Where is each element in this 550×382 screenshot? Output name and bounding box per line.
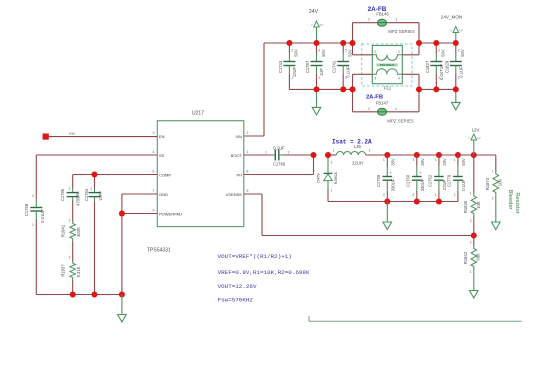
svg-text:R1837: R1837	[61, 264, 66, 277]
svg-text:1: 1	[492, 170, 494, 174]
svg-text:9: 9	[153, 208, 155, 212]
svg-text:1: 1	[247, 150, 249, 154]
svg-text:50V: 50V	[348, 49, 353, 57]
svg-text:VOUT=VREF*((R1/R2)+1): VOUT=VREF*((R1/R2)+1)	[218, 253, 292, 260]
svg-text:1: 1	[395, 107, 397, 111]
svg-text:1: 1	[470, 192, 472, 196]
svg-text:+: +	[419, 171, 422, 176]
svg-text:3: 3	[374, 77, 376, 81]
svg-text:35V: 35V	[391, 158, 396, 166]
svg-text:698: 698	[475, 253, 480, 261]
svg-text:EN: EN	[69, 132, 75, 136]
svg-text:Resistor: Resistor	[514, 192, 520, 213]
svg-text:1: 1	[333, 149, 335, 153]
svg-text:2: 2	[69, 219, 71, 223]
svg-text:4: 4	[153, 150, 155, 154]
svg-text:Isat = 2.2A: Isat = 2.2A	[332, 138, 372, 145]
svg-text:2: 2	[492, 197, 494, 201]
svg-text:1: 1	[396, 18, 398, 22]
svg-text:+: +	[389, 171, 392, 176]
svg-text:C1759: C1759	[376, 174, 381, 187]
svg-text:EN: EN	[159, 134, 165, 139]
svg-text:1UF: 1UF	[319, 68, 324, 76]
svg-text:2: 2	[69, 187, 71, 191]
svg-text:22UH: 22UH	[352, 160, 363, 165]
svg-text:2: 2	[369, 149, 371, 153]
svg-text:8: 8	[247, 169, 249, 173]
svg-text:6: 6	[153, 169, 155, 173]
svg-text:2: 2	[383, 193, 385, 197]
svg-text:C1779: C1779	[447, 174, 452, 187]
svg-text:GND: GND	[159, 192, 168, 197]
svg-text:R1842: R1842	[463, 251, 468, 264]
svg-text:2: 2	[69, 256, 71, 260]
svg-text:2: 2	[435, 193, 437, 197]
svg-text:MPZ SERIES: MPZ SERIES	[387, 118, 414, 123]
svg-text:2: 2	[318, 49, 320, 53]
svg-text:C1741: C1741	[332, 60, 337, 73]
svg-text:330UF: 330UF	[420, 178, 425, 191]
svg-text:TPS54331: TPS54331	[147, 248, 171, 254]
svg-text:1: 1	[345, 76, 347, 80]
svg-text:COMP: COMP	[159, 172, 171, 177]
svg-text:2: 2	[454, 193, 456, 197]
svg-text:2: 2	[90, 187, 92, 191]
svg-text:1: 1	[383, 158, 385, 162]
svg-text:1: 1	[318, 76, 320, 80]
svg-text:2: 2	[291, 49, 293, 53]
svg-text:VSENSE: VSENSE	[226, 192, 243, 197]
svg-text:AP: AP	[459, 29, 463, 33]
svg-text:C1762: C1762	[428, 174, 433, 187]
svg-text:4: 4	[398, 77, 400, 81]
svg-text:2: 2	[331, 161, 333, 165]
svg-text:B360A: B360A	[333, 172, 338, 184]
svg-text:7: 7	[153, 189, 155, 193]
svg-text:U217: U217	[192, 111, 204, 117]
svg-text:2: 2	[438, 49, 440, 53]
svg-text:VREF=0.8V,R1=10K,R2=0.698K: VREF=0.8V,R1=10K,R2=0.698K	[218, 269, 310, 276]
svg-text:5: 5	[247, 189, 249, 193]
svg-text:10K: 10K	[498, 179, 503, 187]
svg-text:12PF: 12PF	[98, 191, 103, 201]
svg-text:24V: 24V	[309, 9, 319, 15]
svg-text:FB147: FB147	[376, 100, 389, 105]
svg-text:330UF: 330UF	[391, 178, 396, 191]
svg-text:D469: D469	[316, 172, 321, 182]
svg-text:V: V	[311, 23, 313, 27]
svg-text:0.1UF: 0.1UF	[461, 179, 466, 191]
svg-text:C1760: C1760	[406, 174, 411, 187]
svg-text:2: 2	[470, 241, 472, 245]
svg-text:1: 1	[413, 158, 415, 162]
svg-text:V: V	[450, 29, 452, 33]
svg-text:1: 1	[265, 151, 267, 155]
svg-text:1: 1	[458, 76, 460, 80]
svg-text:12V: 12V	[472, 128, 480, 133]
svg-text:2: 2	[288, 151, 290, 155]
svg-text:2: 2	[470, 219, 472, 223]
svg-text:4700PF: 4700PF	[76, 191, 81, 206]
svg-text:C1786: C1786	[60, 188, 65, 201]
svg-text:35V: 35V	[420, 158, 425, 166]
svg-text:FB146: FB146	[376, 11, 389, 16]
svg-text:R1874: R1874	[485, 177, 490, 190]
svg-text:1: 1	[398, 50, 400, 54]
svg-text:FL1: FL1	[384, 85, 392, 90]
svg-text:MPZ SERIES: MPZ SERIES	[388, 29, 415, 34]
svg-text:2: 2	[413, 193, 415, 197]
svg-text:VOUT=12.26V: VOUT=12.26V	[218, 283, 257, 290]
svg-text:2: 2	[32, 194, 34, 198]
svg-text:2: 2	[247, 131, 249, 135]
svg-text:1: 1	[454, 158, 456, 162]
svg-text:POWERPAD: POWERPAD	[159, 211, 182, 216]
svg-text:C1827: C1827	[425, 60, 430, 73]
svg-text:50V: 50V	[321, 49, 326, 57]
svg-text:50V: 50V	[461, 158, 466, 166]
svg-text:V: V	[468, 136, 470, 140]
svg-text:1: 1	[291, 76, 293, 80]
svg-text:C1769: C1769	[273, 161, 286, 166]
svg-text:300K: 300K	[76, 227, 81, 237]
svg-text:Bleeder: Bleeder	[507, 190, 513, 210]
svg-text:9.31K: 9.31K	[76, 266, 81, 277]
svg-text:2: 2	[368, 18, 370, 22]
svg-text:50V: 50V	[460, 49, 465, 57]
svg-text:3: 3	[153, 131, 155, 135]
svg-text:25V: 25V	[442, 158, 447, 166]
svg-text:0.01UF: 0.01UF	[40, 209, 45, 223]
svg-text:2: 2	[374, 50, 376, 54]
svg-text:1: 1	[32, 223, 34, 227]
svg-text:10K: 10K	[476, 201, 481, 209]
svg-text:C1829: C1829	[444, 60, 449, 73]
svg-text:B82789C0: B82789C0	[380, 63, 395, 67]
svg-text:2: 2	[458, 49, 460, 53]
svg-text:1: 1	[435, 158, 437, 162]
svg-text:1: 1	[470, 270, 472, 274]
svg-text:50V: 50V	[441, 49, 446, 57]
svg-text:PH: PH	[236, 172, 242, 177]
svg-text:1: 1	[331, 189, 333, 193]
svg-text:C1784: C1784	[84, 188, 89, 201]
svg-text:SS: SS	[159, 153, 165, 158]
svg-text:2: 2	[368, 107, 370, 111]
svg-text:AP: AP	[319, 23, 323, 27]
svg-text:50V: 50V	[294, 49, 299, 57]
svg-text:BOOT: BOOT	[231, 153, 243, 158]
svg-text:R1845: R1845	[463, 200, 468, 213]
svg-text:Fsw=570KHz: Fsw=570KHz	[218, 297, 254, 304]
svg-text:C1787: C1787	[305, 60, 310, 73]
svg-text:AP: AP	[477, 136, 481, 140]
svg-text:2: 2	[345, 49, 347, 53]
svg-text:24V_MON: 24V_MON	[441, 14, 462, 19]
svg-text:VIN: VIN	[235, 134, 242, 139]
svg-text:C1743: C1743	[278, 60, 283, 73]
svg-text:R1841: R1841	[61, 224, 66, 237]
svg-text:1: 1	[438, 76, 440, 80]
svg-text:0.1UF: 0.1UF	[273, 145, 285, 150]
svg-text:C1758: C1758	[24, 203, 29, 216]
